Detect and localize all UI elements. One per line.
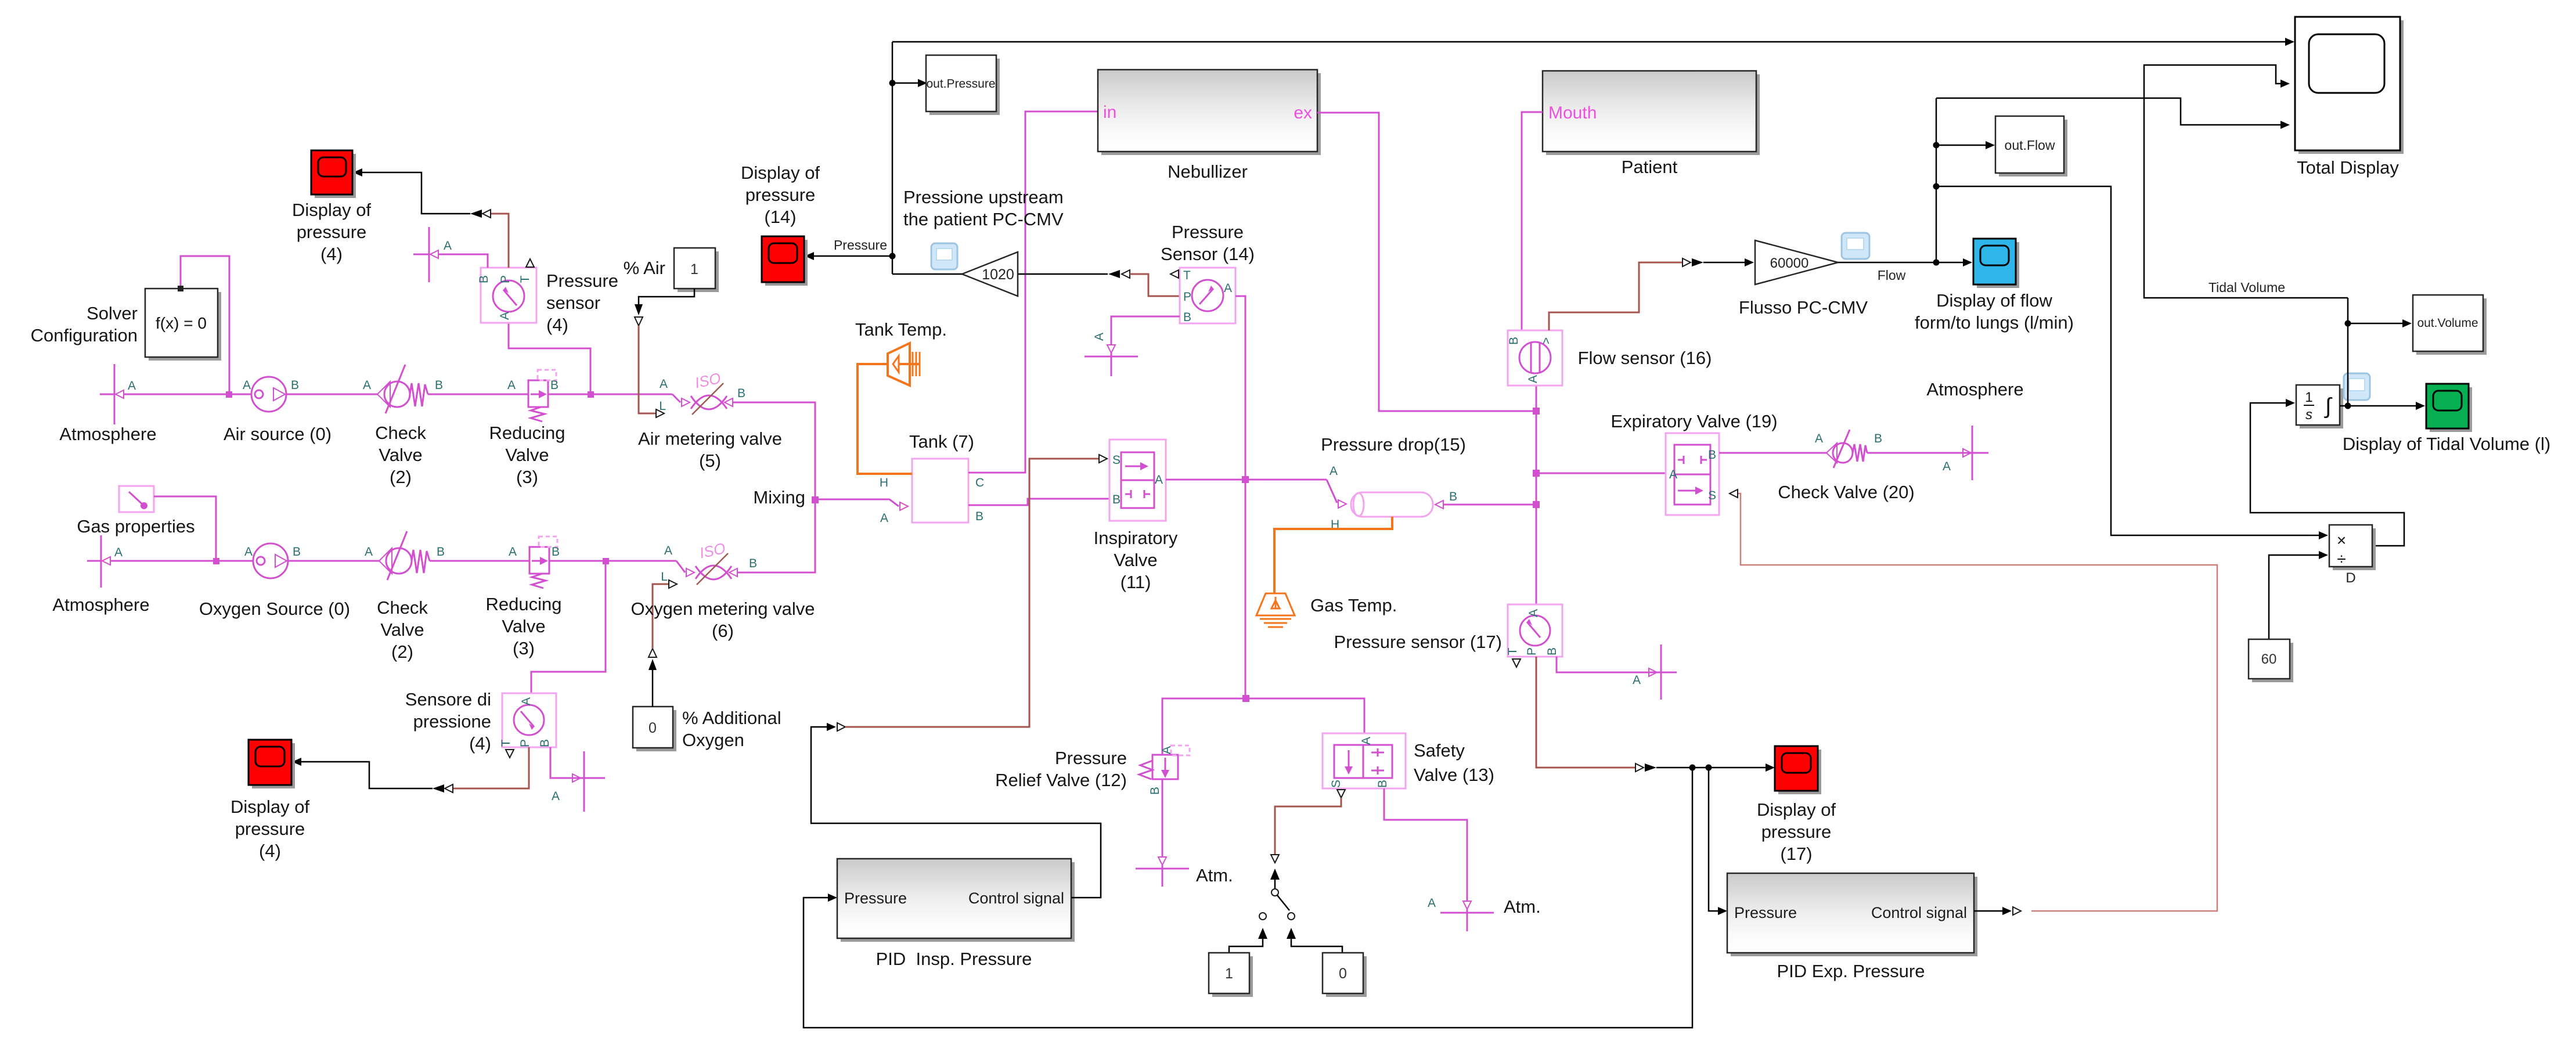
- label Pressione upstream the patient PC-CMV: [903, 187, 1064, 229]
- svg-text:P: P: [1525, 647, 1539, 656]
- scope Display of Tidal Volume: [2426, 384, 2472, 432]
- svg-text:Oxygen metering valve: Oxygen metering valve: [631, 599, 815, 619]
- pressure relief valve (12) wire A: [1162, 698, 1246, 755]
- block out.Flow: [1995, 116, 2067, 177]
- svg-text:(4): (4): [469, 733, 491, 754]
- safety valve (13): [1323, 733, 1406, 788]
- node sensore di pressione branch: [603, 558, 609, 564]
- svg-text:% Additional: % Additional: [682, 708, 781, 728]
- node pressure drop junction: [1533, 501, 1540, 508]
- svg-text:form/to lungs (l/min): form/to lungs (l/min): [1915, 312, 2074, 333]
- svg-text:S: S: [1708, 489, 1716, 502]
- main vertical line (flow sensor to pressure sensor 17): [1536, 386, 1537, 604]
- svg-text:(14): (14): [764, 207, 796, 227]
- wire patient mouth to flow sensor B: [1522, 112, 1543, 330]
- svg-text:1: 1: [1225, 966, 1233, 982]
- label Pressure Sensor (14): [1161, 222, 1255, 264]
- svg-text:Sensore di: Sensore di: [405, 689, 491, 710]
- wire divide output to integrator input: [2250, 403, 2404, 546]
- svg-text:(11): (11): [1121, 572, 1151, 592]
- svg-text:1: 1: [690, 261, 698, 278]
- svg-text:Display of flow: Display of flow: [1936, 290, 2052, 311]
- label Sensore di pressione (4): [405, 689, 491, 754]
- svg-text:A: A: [552, 790, 560, 803]
- expiratory valve (19): [1666, 433, 1719, 515]
- label Check Valve (2) air: [375, 423, 426, 487]
- svg-text:% Air: % Air: [624, 258, 665, 278]
- node divide branch: [1933, 183, 1940, 190]
- node flow branch junction: [1933, 260, 1940, 266]
- oxygen source (0): [244, 543, 301, 578]
- air source (0): [243, 377, 299, 412]
- svg-text:Pressure: Pressure: [1055, 748, 1127, 768]
- svg-text:÷: ÷: [2337, 550, 2346, 568]
- wire pressure drop B to main vertical: [1443, 504, 1536, 506]
- svg-text:Pressure: Pressure: [546, 271, 618, 291]
- svg-text:B: B: [975, 510, 983, 523]
- wire integrator output: [2340, 405, 2416, 407]
- atmosphere port (relief valve): [1136, 857, 1189, 887]
- svg-text:A: A: [1526, 375, 1540, 383]
- svg-text:Control signal: Control signal: [968, 889, 1064, 907]
- wire air metering B to mixing: [733, 402, 815, 499]
- label Solver Configuration: [31, 303, 138, 345]
- svg-text:A: A: [880, 512, 888, 525]
- svg-text:B: B: [737, 387, 745, 400]
- svg-text:B: B: [1545, 647, 1559, 656]
- svg-text:ex: ex: [1294, 103, 1312, 123]
- svg-text:Nebullizer: Nebullizer: [1168, 161, 1248, 182]
- wire atmosphere to sensor 4 B: [438, 254, 488, 268]
- svg-text:Expiratory Valve (19): Expiratory Valve (19): [1611, 411, 1777, 431]
- svg-text:f(x) = 0: f(x) = 0: [156, 314, 207, 332]
- svg-text:A: A: [520, 697, 533, 705]
- atmosphere port (oxygen): [87, 535, 123, 588]
- svg-text:A: A: [1093, 333, 1106, 341]
- label Oxygen metering valve (6): [631, 599, 815, 641]
- atmosphere port (sensore 4): [552, 751, 605, 812]
- reducing valve (3) air: [507, 370, 559, 422]
- constant % Air value 1: [674, 248, 719, 292]
- svg-text:P: P: [499, 275, 512, 283]
- svg-text:B: B: [1376, 780, 1389, 788]
- node PID insp feedback junction: [1689, 765, 1696, 771]
- svg-text:Display of: Display of: [1757, 799, 1836, 820]
- svg-text:PID Exp. Pressure: PID Exp. Pressure: [1777, 961, 1925, 981]
- wire to gain 60000: [1703, 262, 1745, 264]
- svg-text:S: S: [1330, 780, 1343, 788]
- wire % additional oxygen to L (black): [652, 670, 654, 707]
- label Display of pressure (17): [1757, 799, 1836, 864]
- svg-text:Relief Valve (12): Relief Valve (12): [995, 770, 1127, 790]
- svg-text:Check: Check: [377, 597, 428, 618]
- wire sensore P to display (maroon): [453, 747, 529, 788]
- svg-text:(4): (4): [259, 841, 281, 861]
- svg-text:Atm.: Atm.: [1196, 865, 1233, 885]
- svg-text:sensor: sensor: [546, 293, 600, 313]
- node air row / solver branch: [226, 391, 232, 398]
- wire tidal volume to total display port 2: [2144, 65, 2348, 298]
- svg-text:pressure: pressure: [235, 819, 305, 839]
- node expiratory branch junction: [1533, 470, 1540, 477]
- wire main vertical to pressure drop A: [1245, 480, 1337, 503]
- svg-text:L: L: [659, 399, 666, 413]
- svg-text:Check: Check: [375, 423, 426, 443]
- svg-text:pressure: pressure: [745, 185, 816, 205]
- wire flow sensor V to gain 60000 (maroon): [1549, 262, 1682, 330]
- svg-text:B: B: [437, 545, 445, 559]
- atmosphere port (sensor 17): [1633, 644, 1677, 700]
- sensore di pressione (4) block: [499, 693, 556, 758]
- svg-text:B: B: [1449, 490, 1457, 503]
- svg-text:Tank Temp.: Tank Temp.: [855, 319, 947, 340]
- signal conversion arrows (sensore 4): [445, 784, 453, 793]
- atmosphere port (check valve 20): [1943, 426, 1988, 480]
- wire to out.Flow: [1936, 145, 1986, 146]
- svg-text:A: A: [1330, 464, 1338, 478]
- wire constant 0 to switch: [1287, 928, 1342, 953]
- svg-text:Gas Temp.: Gas Temp.: [1310, 595, 1397, 615]
- wire check valve 20 to atmosphere: [1867, 452, 1963, 454]
- svg-text:Patient: Patient: [1622, 157, 1678, 177]
- svg-text:Valve: Valve: [1114, 550, 1157, 570]
- wire expiratory S control (red loop from PID Exp): [1730, 494, 2217, 911]
- node display 14 branch: [889, 253, 896, 260]
- flow sensor (16) block: [1507, 330, 1562, 386]
- svg-text:PID Insp. Pressure: PID Insp. Pressure: [876, 949, 1032, 969]
- subsystem PID Insp. Pressure: [837, 859, 1075, 942]
- wire to display of pressure (4) oxygen: [301, 762, 433, 788]
- scope Display of pressure (4) air: [311, 150, 356, 198]
- svg-text:Pressure: Pressure: [844, 889, 907, 907]
- svg-text:Air metering valve: Air metering valve: [638, 428, 782, 449]
- svg-text:Pressure sensor (17): Pressure sensor (17): [1334, 632, 1502, 652]
- svg-text:Solver: Solver: [87, 303, 138, 323]
- wire sensor 14 B to atmosphere: [1111, 316, 1180, 345]
- wire gain 1020 input: [1018, 273, 1108, 275]
- svg-text:60: 60: [2261, 651, 2277, 667]
- atmosphere port (sensor 14): [1085, 333, 1138, 376]
- svg-text:B: B: [552, 545, 560, 559]
- wire tank C to nebulizer in: [968, 111, 1098, 473]
- label Display of pressure (4) oxygen: [230, 797, 309, 861]
- svg-text:B: B: [550, 379, 559, 392]
- label Pressure Relief Valve (12): [995, 748, 1127, 790]
- svg-text:(3): (3): [513, 638, 535, 658]
- svg-text:Pressure: Pressure: [1734, 904, 1797, 921]
- svg-text:Mixing: Mixing: [753, 487, 805, 507]
- atmosphere port (safety valve): [1428, 896, 1494, 931]
- svg-text:1020: 1020: [982, 266, 1014, 283]
- svg-text:A: A: [243, 379, 251, 392]
- label Display of pressure (4) air: [292, 200, 371, 264]
- wire flow to divide x input: [1936, 186, 2310, 535]
- wire integrator output up to tidal volume: [2347, 298, 2349, 406]
- safety valve (13) wire A: [1246, 698, 1364, 733]
- air metering valve (5): [659, 369, 745, 415]
- svg-text:Safety: Safety: [1414, 740, 1465, 761]
- svg-text:B: B: [1874, 432, 1882, 445]
- node pressure sensor 4 branch: [588, 391, 594, 398]
- svg-text:Display of Tidal Volume (l): Display of Tidal Volume (l): [2343, 434, 2550, 454]
- wire safety valve S control (maroon): [1337, 790, 1345, 798]
- inspiratory valve (11): [1109, 440, 1166, 521]
- atmosphere port (sensor 4 air): [413, 227, 452, 282]
- wire tank temp to tank H (orange): [858, 364, 912, 474]
- label Display of flow form/to lungs (l/min): [1915, 290, 2074, 333]
- tank temp source symbol: [888, 343, 920, 386]
- manual switch: [1259, 855, 1295, 920]
- svg-text:Pressure drop(15): Pressure drop(15): [1321, 434, 1466, 455]
- wire sensor 17 B to atmosphere: [1557, 657, 1649, 672]
- wire check valve to reducing valve (air): [428, 394, 528, 395]
- svg-text:out.Flow: out.Flow: [2005, 138, 2055, 153]
- wire out.Pressure trunk (vertical): [892, 42, 894, 274]
- vertical flow distribution wire: [1936, 98, 1937, 262]
- wire to display of pressure (4) air: [362, 172, 470, 214]
- svg-text:Display of: Display of: [292, 200, 371, 220]
- wire to display of pressure (17): [1656, 767, 1766, 769]
- svg-text:A: A: [1669, 468, 1677, 481]
- svg-text:B: B: [749, 557, 757, 570]
- check valve (20): [1815, 430, 1882, 468]
- svg-text:B: B: [435, 379, 443, 392]
- svg-text:the patient PC-CMV: the patient PC-CMV: [903, 209, 1064, 229]
- label Reducing Valve (3) oxygen: [486, 594, 562, 658]
- svg-text:Gas properties: Gas properties: [77, 516, 194, 536]
- svg-text:A: A: [444, 239, 452, 253]
- node ex junction: [1533, 408, 1540, 415]
- svg-text:Valve (13): Valve (13): [1414, 765, 1494, 785]
- svg-text:Atmosphere: Atmosphere: [1926, 379, 2023, 399]
- svg-text:0: 0: [1339, 966, 1347, 982]
- svg-text:>: >: [1540, 337, 1553, 344]
- wire 60 to divide input: [2269, 555, 2319, 639]
- node out.Volume branch: [2345, 320, 2351, 327]
- node integrator output junction: [2345, 403, 2351, 409]
- subsystem PID Exp. Pressure: [1727, 873, 1977, 956]
- sample time badge (gain 1020): [931, 243, 957, 269]
- svg-text:Control signal: Control signal: [1871, 904, 1967, 921]
- svg-text:Mouth: Mouth: [1548, 103, 1597, 123]
- gas properties block: [119, 486, 154, 512]
- label Safety Valve (13): [1414, 740, 1494, 785]
- svg-text:A: A: [1815, 432, 1823, 445]
- oxygen metering valve (6): [661, 539, 757, 585]
- wire PID insp control signal loop: [811, 727, 1101, 898]
- svg-text:Valve: Valve: [505, 445, 549, 465]
- wire oxygen source to check valve: [288, 560, 379, 562]
- svg-text:A: A: [114, 546, 123, 559]
- svg-text:(2): (2): [390, 467, 412, 487]
- svg-text:Sensor (14): Sensor (14): [1161, 244, 1255, 264]
- wire mixing to tank A: [815, 499, 899, 506]
- wire maroon to inspiratory S: [845, 459, 1099, 727]
- svg-text:B: B: [291, 379, 299, 392]
- svg-text:A: A: [664, 544, 672, 557]
- svg-text:Valve: Valve: [380, 620, 424, 640]
- tank (7) block: [880, 459, 984, 525]
- sample time badge (integrator): [2344, 373, 2370, 400]
- svg-text:A: A: [498, 312, 511, 320]
- wire to out.Pressure: [892, 82, 918, 84]
- svg-text:S: S: [1112, 453, 1121, 467]
- svg-text:T: T: [1183, 269, 1191, 282]
- svg-text:A: A: [363, 379, 371, 392]
- svg-text:pressione: pressione: [413, 711, 491, 732]
- svg-text:Check Valve (20): Check Valve (20): [1778, 482, 1914, 502]
- wire top to total display port 1: [892, 41, 2285, 43]
- wire sensor 14 P to gain (maroon): [1130, 274, 1180, 296]
- wire air source to check valve: [286, 394, 377, 395]
- node gas properties branch: [213, 558, 219, 564]
- svg-text:Oxygen: Oxygen: [682, 730, 744, 750]
- svg-text:A: A: [1360, 737, 1373, 745]
- scope Display of pressure (4) oxygen: [248, 740, 295, 788]
- svg-text:Air source (0): Air source (0): [224, 424, 332, 444]
- wire to display of pressure (14): [814, 255, 892, 257]
- svg-text:B: B: [293, 545, 301, 559]
- svg-text:Display of: Display of: [741, 163, 820, 183]
- svg-text:Pressure: Pressure: [1172, 222, 1244, 242]
- constant 60: [2249, 639, 2293, 682]
- svg-text:B: B: [1183, 311, 1191, 324]
- svg-text:T: T: [1506, 647, 1519, 655]
- signal conversion arrows (sensor 4 air): [482, 210, 491, 218]
- svg-text:Reducing: Reducing: [489, 423, 565, 443]
- wire oxygen metering B to mixing: [737, 499, 815, 572]
- wire feedback to PID Insp Pressure input (long bottom wire): [804, 768, 1692, 1028]
- pressure sensor (4) air block: [477, 259, 536, 323]
- svg-text:(3): (3): [516, 467, 538, 487]
- svg-text:Reducing: Reducing: [486, 594, 562, 614]
- svg-text:B: B: [1708, 448, 1716, 462]
- wire sensore B to atmosphere: [550, 747, 572, 778]
- label Reducing Valve (3) air: [489, 423, 565, 487]
- svg-text:s: s: [2305, 407, 2312, 423]
- solver configuration block: [145, 286, 221, 361]
- wire gas properties to oxygen row: [154, 496, 216, 561]
- svg-text:Flow sensor (16): Flow sensor (16): [1578, 348, 1712, 368]
- check valve (2) oxygen: [365, 531, 445, 580]
- svg-text:(6): (6): [712, 621, 734, 641]
- svg-text:Atmosphere: Atmosphere: [59, 424, 156, 444]
- svg-text:(4): (4): [546, 315, 568, 335]
- svg-text:pressure: pressure: [297, 222, 367, 242]
- svg-text:A: A: [244, 545, 253, 559]
- wire tank B to inspiratory valve B: [968, 499, 1109, 505]
- svg-text:Configuration: Configuration: [31, 325, 138, 345]
- svg-text:(5): (5): [699, 451, 721, 471]
- pressure sensor (14) block: [1170, 268, 1235, 324]
- svg-text:out.Volume: out.Volume: [2417, 316, 2478, 330]
- label % Additional Oxygen: [682, 708, 781, 750]
- wire safety valve B to atmosphere: [1384, 788, 1467, 901]
- node inspiratory A junction: [1242, 476, 1249, 483]
- svg-text:B: B: [538, 739, 552, 747]
- svg-text:B: B: [1148, 787, 1162, 795]
- svg-text:0: 0: [648, 720, 657, 736]
- svg-text:Valve: Valve: [379, 445, 422, 465]
- svg-text:Tank (7): Tank (7): [909, 431, 974, 452]
- svg-text:A: A: [1527, 609, 1540, 617]
- wire sensor 4 P to display (maroon): [491, 214, 509, 268]
- wire main vertical to expiratory A: [1536, 473, 1666, 474]
- svg-text:pressure: pressure: [1761, 822, 1832, 842]
- svg-text:Inspiratory: Inspiratory: [1094, 528, 1178, 548]
- svg-text:Flusso PC-CMV: Flusso PC-CMV: [1739, 297, 1868, 318]
- wire to out.Volume: [2348, 323, 2402, 325]
- svg-text:P: P: [518, 739, 532, 747]
- label Check Valve (2) oxygen: [377, 597, 428, 662]
- wire solver configuration branch: [181, 256, 229, 394]
- svg-text:A: A: [507, 379, 516, 392]
- svg-text:Total Display: Total Display: [2297, 157, 2399, 178]
- constant 1: [1209, 953, 1253, 997]
- divide block: [2329, 525, 2376, 570]
- svg-text:A: A: [509, 545, 517, 559]
- svg-text:Display of: Display of: [230, 797, 309, 817]
- pressure sensor (17) block: [1506, 604, 1562, 667]
- svg-text:A: A: [128, 379, 136, 392]
- check valve (2) air: [363, 365, 443, 413]
- node mixing: [812, 496, 819, 503]
- wire check valve to reducing valve (oxygen): [430, 560, 529, 562]
- subsystem Patient: [1543, 71, 1760, 155]
- svg-text:A: A: [1155, 473, 1163, 487]
- svg-text:B: B: [1507, 337, 1521, 345]
- wire atmosphere to air source: [124, 394, 251, 395]
- svg-text:Atmosphere: Atmosphere: [52, 595, 149, 615]
- svg-text:H: H: [880, 476, 888, 489]
- wire % Air constant to metering valve L (black part): [639, 289, 694, 304]
- block out.Pressure: [926, 55, 1000, 115]
- label Air metering valve (5): [638, 428, 782, 471]
- svg-text:B: B: [477, 275, 491, 283]
- svg-text:P: P: [1183, 290, 1191, 304]
- wire inspiratory A to main vertical: [1166, 479, 1245, 481]
- wire % Air maroon to L port: [639, 326, 656, 413]
- subsystem Nebullizer: [1098, 70, 1321, 155]
- wire constant 1 to switch: [1229, 928, 1267, 953]
- pressure relief valve (12): [1139, 746, 1190, 795]
- constant % Additional Oxygen value 0: [633, 707, 676, 751]
- svg-text:Pressione upstream: Pressione upstream: [903, 187, 1064, 207]
- gain 60000 Flusso PC-CMV: [1755, 240, 1838, 284]
- wire expiratory B to check valve 20: [1719, 452, 1826, 454]
- scope Display of flow form/to lungs: [1973, 239, 2019, 288]
- integrator block: [2296, 385, 2343, 428]
- wire pressure sensor (4) A branch: [509, 323, 590, 394]
- wire PID exp control signal output: [1974, 910, 2002, 912]
- svg-text:out.Pressure: out.Pressure: [926, 77, 995, 91]
- node PID exp feedback junction: [1706, 765, 1712, 771]
- wire atmosphere to oxygen source: [110, 560, 253, 562]
- block out.Volume: [2413, 295, 2487, 355]
- svg-text:D: D: [2346, 570, 2355, 586]
- svg-text:Oxygen Source (0): Oxygen Source (0): [199, 599, 350, 619]
- svg-text:L: L: [661, 570, 668, 584]
- wire feedback to PID Exp Pressure input: [1709, 768, 1718, 911]
- label Display of pressure (14): [741, 163, 820, 227]
- svg-text:in: in: [1103, 103, 1116, 122]
- svg-text:60000: 60000: [1770, 255, 1809, 271]
- wire reducing valve to oxygen metering valve: [549, 560, 676, 562]
- scope Display of pressure (17): [1775, 746, 1821, 794]
- svg-text:(4): (4): [320, 244, 343, 264]
- svg-text:1: 1: [2305, 390, 2312, 405]
- wire gain 60000 output (Flow): [1838, 262, 1963, 264]
